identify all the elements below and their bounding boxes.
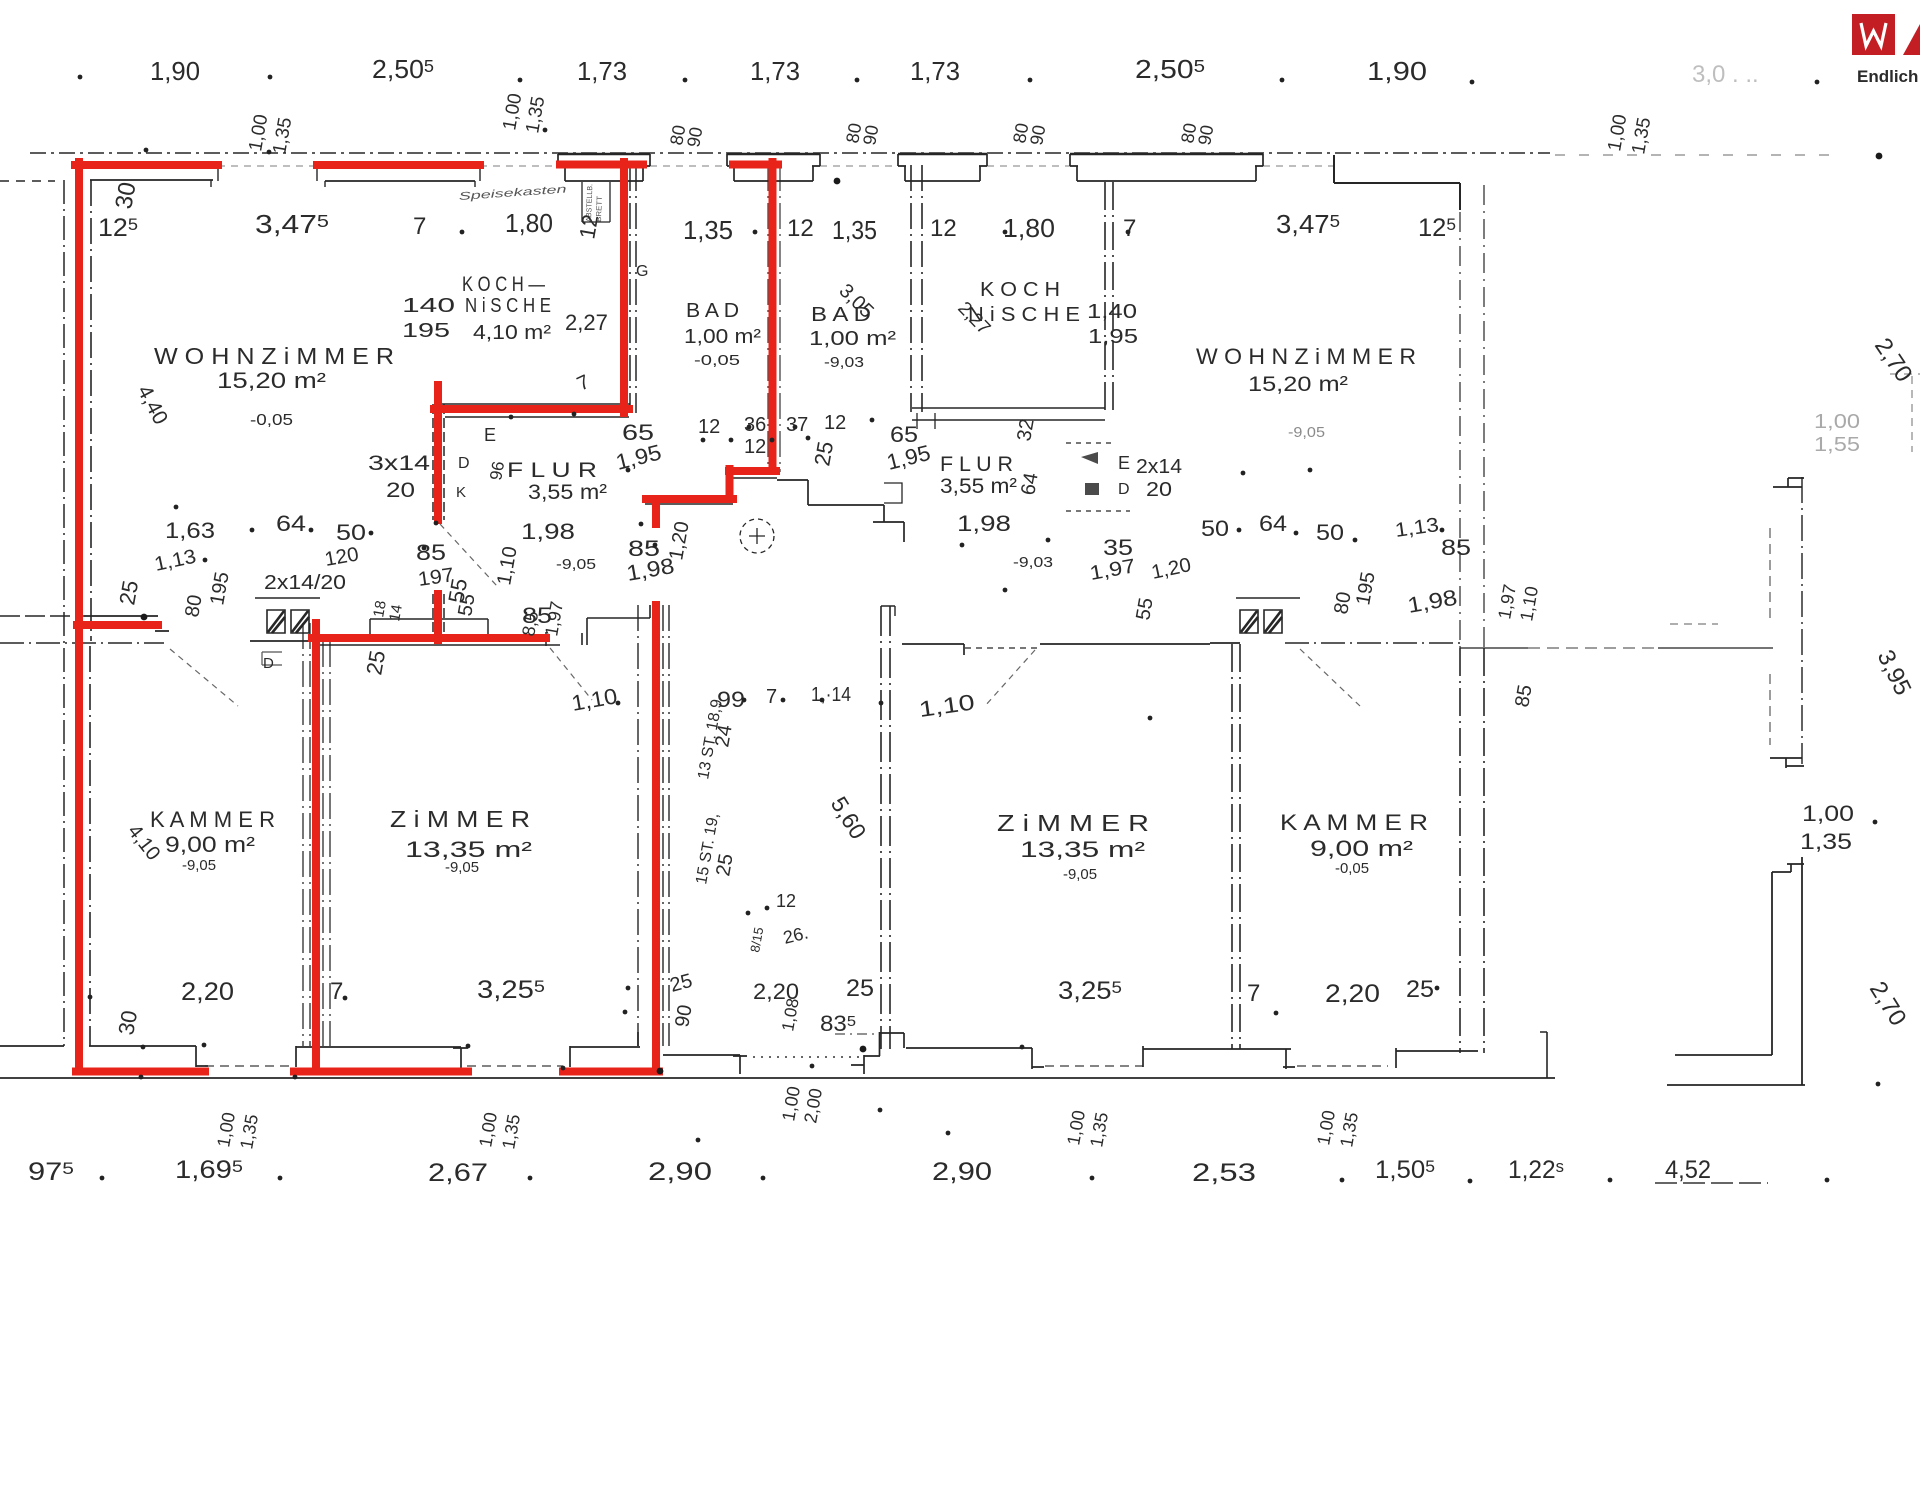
svg-text:12: 12 [930,215,957,242]
svg-text:64: 64 [276,511,306,536]
svg-text:E: E [1118,453,1130,473]
svg-text:20: 20 [386,479,415,502]
svg-text:7: 7 [1123,215,1136,242]
svg-text:14: 14 [386,603,406,622]
svg-text:1,35: 1,35 [1800,829,1852,854]
svg-text:2,67: 2,67 [428,1159,488,1187]
svg-text:1,63: 1,63 [165,518,215,543]
svg-text:1,·14: 1,·14 [811,684,851,706]
svg-text:30: 30 [110,180,141,211]
wall koch-nische bottom [434,404,630,417]
svg-text:N i S C H E: N i S C H E [968,304,1080,326]
svg-text:25: 25 [809,439,838,467]
wall wohnzimmer/koch divider [433,404,444,641]
svg-text:85: 85 [522,603,552,628]
red outline koch west vertical lower [434,594,442,640]
svg-text:1,73: 1,73 [577,56,627,86]
wall stairwell east [881,606,890,1049]
svg-text:64: 64 [1259,511,1287,536]
wall top-right corner faint step [1890,374,1920,452]
svg-text:1,98: 1,98 [521,519,575,544]
svg-text:K A M M E R: K A M M E R [1280,810,1428,835]
level marker circle [740,519,774,553]
svg-text:32: 32 [1013,417,1039,443]
svg-text:50: 50 [1316,520,1344,545]
svg-text:3,55 m²: 3,55 m² [940,475,1017,498]
svg-text:96: 96 [486,460,508,482]
svg-text:9,00 m²: 9,00 m² [165,832,255,857]
svg-text:3,0 . ..: 3,0 . .. [1692,61,1759,88]
survey dots [78,75,83,80]
svg-text:50: 50 [336,520,366,545]
steps flur-right entrance [777,480,904,542]
wall top pier 3 [898,153,987,156]
svg-text:15,20 m²: 15,20 m² [1248,373,1348,396]
svg-text:1,90: 1,90 [150,56,200,86]
svg-text:Z i M M E R: Z i M M E R [390,806,530,832]
window dashes bottom wall [205,1065,294,1067]
red outline zimmer-left west vertical [312,623,320,1071]
svg-text:85: 85 [1511,683,1537,709]
svg-text:B A D: B A D [811,304,871,326]
wall zimmer-left east [638,605,669,1046]
entrance stair right jog [879,1032,1044,1069]
svg-text:90: 90 [859,123,882,146]
svg-text:W O H N Z i M M E R: W O H N Z i M M E R [154,343,394,369]
svg-text:F L U R: F L U R [940,453,1013,476]
svg-text:K O C H: K O C H [980,279,1060,301]
svg-text:E: E [484,425,496,445]
svg-text:F L U R: F L U R [507,459,597,482]
svg-text:30: 30 [113,1008,142,1036]
red outline step a [729,467,776,475]
svg-text:1,35: 1,35 [683,215,733,245]
svg-text:2,20: 2,20 [1325,980,1380,1008]
svg-text:7: 7 [330,978,343,1005]
wall bad-left west [630,165,636,413]
svg-text:1,73: 1,73 [750,56,800,86]
svg-text:1,00: 1,00 [1814,411,1860,433]
svg-text:25: 25 [712,852,738,878]
wall koch-right east [1105,182,1113,415]
svg-text:1,00 m²: 1,00 m² [809,328,896,350]
svg-text:ABSTELLB.: ABSTELLB. [584,184,594,222]
svg-text:12: 12 [698,416,720,438]
red outline step c [646,495,733,503]
wall top pier 4 [1070,153,1263,156]
wall zimmer-left west [303,623,330,1046]
svg-text:-9,05: -9,05 [182,857,216,874]
svg-text:-9,05: -9,05 [1288,424,1325,441]
red outline koch bottom horizontal [434,405,629,413]
svg-text:195: 195 [402,320,450,342]
red outline kammer top tick [77,621,158,629]
wall bad-right east [911,165,922,412]
svg-text:1,40: 1,40 [1087,301,1137,323]
svg-text:1,00 m²: 1,00 m² [684,326,761,348]
svg-text:1,73: 1,73 [910,56,960,86]
logo triangle [1903,24,1920,55]
red outline bottom segment 1 [76,1068,205,1076]
svg-text:3,55 m²: 3,55 m² [528,481,607,504]
svg-text:Endlich: Endlich [1857,67,1918,86]
svg-text:4,10 m²: 4,10 m² [473,322,551,344]
wall zimmer-left top [312,619,560,646]
door hatch flur-right [1081,452,1099,495]
svg-text:12: 12 [824,412,846,434]
svg-text:90: 90 [683,125,706,148]
svg-text:2x14/20: 2x14/20 [264,572,346,594]
svg-text:12: 12 [776,891,796,911]
wall kammer-right top [1210,642,1240,644]
svg-text:90: 90 [1026,123,1049,146]
wall wohnzimmer-right bottom faint [1460,647,1528,649]
wall top pier 1 [558,153,650,156]
svg-text:-9,03: -9,03 [1013,554,1053,571]
svg-text:D: D [1118,481,1130,498]
door flur-right dashes [1066,442,1115,444]
red outline top wall segment 2 [317,161,480,169]
red outline koch west vertical upper [434,385,442,520]
red outline bottom segment 2 [294,1068,468,1076]
svg-text:2,20: 2,20 [181,978,234,1006]
svg-text:140: 140 [402,295,455,317]
svg-text:85: 85 [416,540,446,565]
red outline zimmer-left top horizontal [312,634,546,642]
wall wohnzimmer-left bottom [84,616,169,631]
wire top exterior wall outer chain line [30,152,1550,154]
wall top segment inner lines [90,180,475,181]
svg-text:2,90: 2,90 [648,1158,712,1186]
svg-text:25: 25 [114,578,143,606]
svg-text:7: 7 [766,686,777,708]
red outline top wall segment 3 [560,161,643,169]
svg-text:-9,03: -9,03 [824,354,864,371]
svg-text:90: 90 [1194,123,1217,146]
svg-text:55: 55 [1132,596,1158,622]
svg-text:7: 7 [1247,980,1260,1007]
wall top right corner step [1334,155,1460,210]
red outline koch east vertical [620,162,628,413]
svg-text:1,80: 1,80 [505,208,553,238]
red outline bottom segment 3 [563,1068,659,1076]
svg-text:12: 12 [787,215,814,242]
svg-text:1,00: 1,00 [1802,801,1854,826]
svg-text:9,00 m²: 9,00 m² [1310,836,1413,861]
svg-text:25: 25 [846,975,874,1002]
svg-text:W O H N Z i M M E R: W O H N Z i M M E R [1196,344,1416,369]
svg-text:K A M M E R: K A M M E R [150,807,275,832]
svg-text:-0,05: -0,05 [694,352,740,369]
logo W square [1852,14,1895,55]
svg-text:4,52: 4,52 [1665,1156,1711,1184]
svg-text:Z i M M E R: Z i M M E R [997,810,1149,836]
wall zimmer/kammer-right divider [1232,644,1240,1049]
svg-text:1,90: 1,90 [1367,56,1427,86]
svg-text:D: D [458,455,470,472]
wall flur-right top [912,408,1105,420]
svg-text:1,95: 1,95 [1088,326,1138,348]
wall bottom inner segments [0,1046,208,1067]
wall bottom exterior outer line [0,1077,1555,1079]
svg-text:-9,05: -9,05 [445,859,479,876]
svg-text:50: 50 [1201,516,1229,541]
wall left exterior [0,180,55,182]
svg-text:36: 36 [744,414,766,436]
wall kammer-left top [0,642,164,644]
svg-text:2,90: 2,90 [932,1158,992,1186]
wall kammer-right east [1460,648,1484,1053]
door kammer-left dashed swing [170,649,238,706]
svg-text:G: G [636,263,648,280]
red outline left side vertical [75,162,83,1071]
svg-text:BRETT: BRETT [594,195,604,222]
svg-text:-0,05: -0,05 [250,412,293,429]
svg-text:12: 12 [744,436,766,458]
svg-text:1,55: 1,55 [1814,434,1860,456]
red outline zimmer-left east vertical [652,605,660,1071]
wall right bottom L-shape [1675,872,1772,1055]
svg-text:K: K [456,484,466,501]
red outline step b [726,469,734,499]
svg-text:N i S C H E: N i S C H E [465,295,551,317]
svg-text:64: 64 [1017,471,1043,497]
steps flur-left entrance [645,478,777,504]
wall bad-left east under red [768,165,780,472]
svg-text:85: 85 [1441,535,1471,560]
red outline step jamb [652,499,660,524]
svg-text:7: 7 [413,213,426,240]
svg-text:25: 25 [361,648,390,676]
wall right window column upper [1801,477,1803,764]
vent boxes kammer-left [267,610,309,633]
red outline top wall segment 4 [733,161,778,169]
svg-text:3x14: 3x14 [368,452,430,475]
svg-text:D: D [263,655,274,672]
svg-text:15,20 m²: 15,20 m² [217,368,326,393]
svg-text:80: 80 [181,593,207,619]
svg-text:25: 25 [1406,976,1434,1003]
door hatch flur-left letter D [262,652,282,665]
svg-text:1,80: 1,80 [1003,213,1055,243]
wall top pier 2 [727,153,820,156]
svg-text:13,35 m²: 13,35 m² [1020,837,1145,862]
svg-text:-9,05: -9,05 [1063,866,1097,883]
wall zimmer-right top [902,644,1210,655]
window symbols top wall [218,165,317,167]
svg-text:55: 55 [443,576,472,604]
red outline top wall segment 1 [75,161,218,169]
svg-text:2,53: 2,53 [1192,1159,1256,1187]
svg-text:K O C H —: K O C H — [462,273,545,296]
svg-text:90: 90 [671,1003,697,1029]
svg-text:1,35: 1,35 [832,215,877,245]
svg-text:-0,05: -0,05 [1335,860,1369,877]
svg-text:1,98: 1,98 [957,511,1011,536]
shelf symbol bad-left top [582,182,610,222]
svg-text:1,22s: 1,22s [1508,1156,1564,1184]
svg-text:2,27: 2,27 [565,310,608,335]
svg-text:B A D: B A D [686,300,739,322]
svg-text:-9,05: -9,05 [556,556,596,573]
svg-text:37: 37 [786,414,808,436]
red outline bad-right wall vertical [769,162,777,471]
svg-text:20: 20 [1146,479,1172,501]
svg-text:2x14: 2x14 [1136,456,1182,478]
